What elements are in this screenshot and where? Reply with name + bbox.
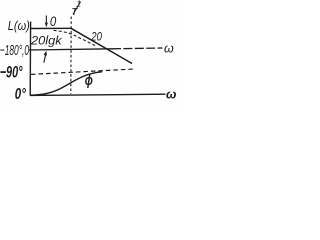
svg-text:ω: ω (166, 88, 177, 102)
svg-text:20: 20 (90, 30, 102, 43)
svg-text:−180°,0: −180°,0 (0, 41, 29, 58)
svg-text:0°: 0° (15, 84, 26, 102)
svg-text:−90°: −90° (0, 62, 23, 81)
svg-text:L(ω): L(ω) (8, 20, 30, 34)
svg-text:0: 0 (50, 14, 56, 29)
svg-text:T: T (71, 7, 78, 18)
svg-text:ω: ω (164, 41, 174, 55)
svg-text:ϕ: ϕ (85, 71, 93, 88)
svg-text:20lgk: 20lgk (30, 34, 63, 48)
